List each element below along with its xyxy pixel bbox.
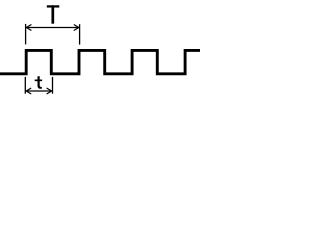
arrowhead: right end of T arrow (74, 25, 79, 31)
dimension arrow shaft: pulse width t (26, 90, 51, 92)
dimension arrow shaft: period T (26, 27, 78, 29)
dimension extension line: pulse end (below first falling edge) (52, 77, 54, 94)
dimension extension line: period end (above second rising edge) (79, 24, 81, 44)
arrowhead: left end of T arrow (26, 25, 31, 31)
wire: square-wave pulse train signal (0, 50, 200, 73)
label: T (period) (47, 5, 60, 23)
arrowhead: left end of t arrow (26, 88, 31, 94)
label: t (pulse width) (35, 76, 42, 89)
arrowhead: right end of t arrow (47, 88, 52, 94)
dimension extension line: period start (above first rising edge) (25, 24, 27, 45)
dimension extension line: pulse start (below first rising edge) (24, 77, 26, 94)
